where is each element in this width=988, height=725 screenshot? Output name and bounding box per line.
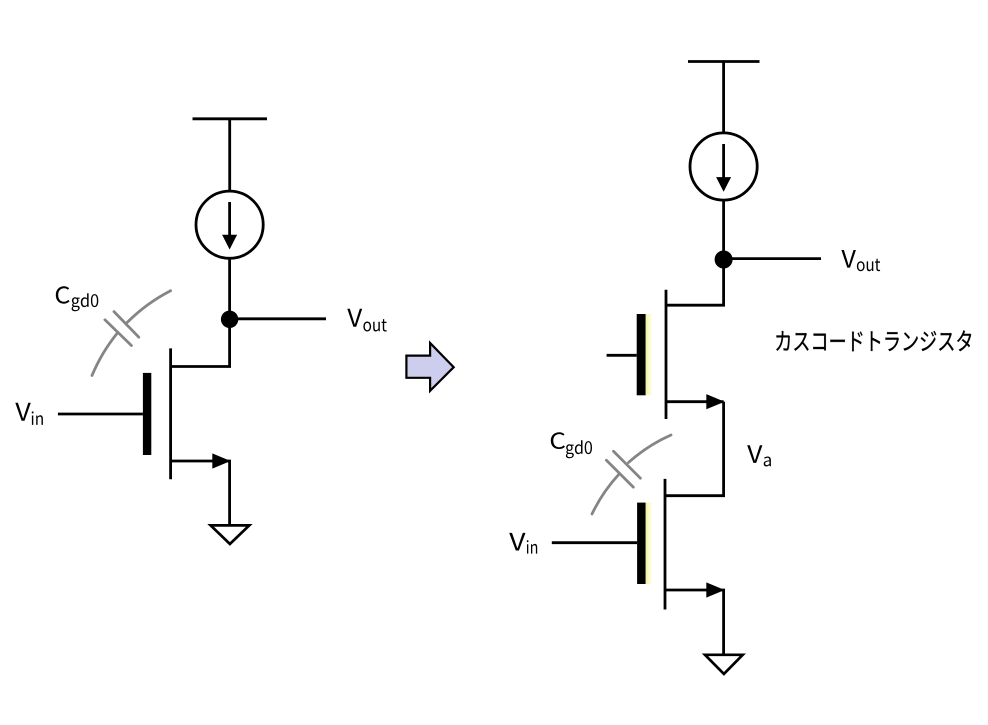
transistor M1 gate bar — [143, 373, 151, 455]
wire node to Vout label (right) — [724, 257, 821, 260]
block arrow (transform) — [406, 343, 453, 391]
cascode transistor M3 channel — [665, 290, 668, 419]
transistor M1 source wire — [171, 461, 230, 525]
wire node Va: M3 source to M2 drain — [665, 402, 724, 496]
transistor M2 source arrow — [706, 582, 724, 597]
cascode transistor M3 gate bar highlight — [646, 314, 653, 395]
wire node to drain of M3 — [666, 260, 724, 306]
cascode transistor M3 source wire — [666, 400, 724, 403]
node Vout junction dot (left) — [221, 311, 238, 328]
current source I2 circle — [690, 133, 757, 200]
capacitor Cgd0 plate 2 (right) — [606, 460, 633, 487]
capacitor Cgd0 arc lower (left) — [92, 333, 117, 375]
label Cgd0 (left) — [56, 286, 99, 311]
current source I2 arrow — [722, 144, 725, 178]
transistor M2 channel — [664, 479, 667, 610]
transistor M2 gate bar — [637, 503, 646, 584]
label Cgd0 (right) — [551, 432, 592, 458]
label Vin (left) — [15, 403, 43, 425]
ground symbol (right) — [705, 655, 743, 674]
node Vout junction dot (right) — [715, 251, 733, 269]
current source I1 circle — [196, 191, 263, 258]
ground symbol (left) — [211, 525, 250, 544]
label Vout (left) — [347, 309, 386, 332]
wire to gate of M3 — [607, 354, 637, 357]
annotation text カスコードトランジスタ — [776, 330, 971, 351]
transistor M1 channel — [169, 348, 172, 479]
wire I2 to node Vout (right) — [722, 200, 725, 259]
wire node to drain of M1 — [171, 319, 230, 366]
wire Vin to gate of M1 — [58, 413, 143, 416]
transistor M1 source arrow — [212, 453, 230, 468]
capacitor Cgd0 arc lower (right) — [592, 474, 619, 514]
power rail VDD (left) — [193, 117, 268, 120]
power rail VDD (right) — [688, 60, 760, 63]
label Va — [747, 445, 771, 466]
capacitor Cgd0 arc upper (right) — [629, 435, 672, 463]
label Vin (right) — [509, 533, 537, 554]
wire Vin to gate of M2 — [552, 541, 637, 544]
cascode transistor M3 gate bar — [637, 314, 646, 395]
capacitor Cgd0 plate 1 (left) — [114, 312, 139, 338]
wire VDD to current source I1 — [228, 119, 231, 192]
capacitor Cgd0 arc upper (left) — [127, 291, 170, 323]
wire I1 to node Vout — [228, 258, 231, 319]
capacitor Cgd0 plate 1 (right) — [614, 451, 641, 478]
current source I1 arrow — [228, 202, 231, 236]
wire VDD to current source I2 — [722, 62, 725, 134]
capacitor Cgd0 plate 2 (left) — [105, 320, 131, 346]
transistor M2 gate bar highlight — [646, 503, 653, 584]
wire node to Vout label — [230, 317, 326, 320]
label Vout (right) — [841, 250, 880, 271]
cascode transistor M3 source arrow — [706, 394, 724, 409]
transistor M2 source wire — [665, 590, 724, 655]
